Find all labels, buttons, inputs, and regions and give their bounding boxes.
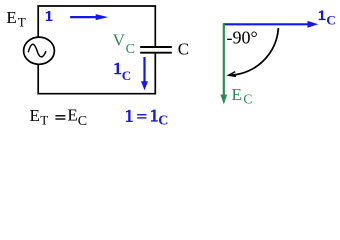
svg-text:E: E [232, 85, 242, 104]
svg-text:E: E [6, 8, 16, 27]
svg-text:C: C [326, 13, 335, 28]
svg-text:T: T [18, 15, 26, 30]
svg-text:E: E [30, 106, 40, 125]
svg-text:-90°: -90° [227, 28, 258, 48]
svg-text:C: C [243, 92, 252, 107]
svg-text:E: E [67, 106, 77, 125]
svg-text:C: C [78, 114, 87, 129]
svg-text:C: C [178, 40, 189, 59]
svg-text:T: T [40, 113, 48, 128]
svg-text:V: V [113, 30, 126, 49]
svg-text:C: C [158, 113, 168, 128]
svg-text:C: C [122, 68, 131, 83]
svg-text:C: C [126, 42, 135, 57]
